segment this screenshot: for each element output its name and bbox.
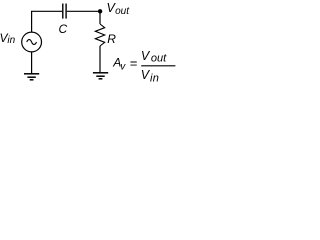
- svg-text:V: V: [141, 49, 151, 63]
- wire top rail right segment: [67, 10, 100, 12]
- ground (left) bar 3: [30, 79, 34, 81]
- node Vout junction dot: [98, 9, 102, 13]
- svg-text:C: C: [59, 22, 68, 36]
- svg-text:=: =: [130, 55, 138, 70]
- svg-text:v: v: [120, 61, 126, 72]
- svg-text:in: in: [150, 72, 159, 84]
- ground (left) bar 1: [24, 73, 39, 75]
- voltage source sine symbol: [27, 40, 37, 45]
- svg-text:R: R: [107, 32, 116, 46]
- ground (right) bar 3: [99, 78, 103, 80]
- capacitor C1 right plate: [65, 4, 67, 19]
- capacitor C1 left plate: [62, 4, 64, 19]
- formula fraction bar: [141, 65, 175, 67]
- resistor R zigzag: [95, 24, 104, 46]
- wire top rail left segment: [31, 10, 62, 12]
- ground (right) bar 1: [93, 72, 108, 74]
- wire source bottom to left ground: [31, 52, 33, 74]
- voltage source V1 circle: [22, 32, 42, 52]
- wire node to resistor top: [99, 11, 101, 24]
- ground (right) bar 2: [96, 75, 104, 77]
- svg-text:in: in: [7, 35, 15, 46]
- svg-text:out: out: [115, 6, 130, 17]
- wire source top to top rail: [31, 11, 33, 32]
- svg-text:out: out: [151, 52, 167, 64]
- wire resistor bottom to right ground: [99, 46, 101, 73]
- ground (left) bar 2: [27, 76, 35, 78]
